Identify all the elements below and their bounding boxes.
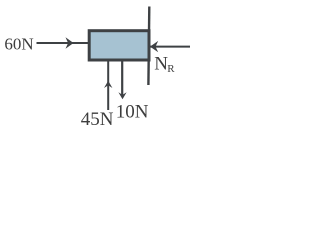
svg-text:R: R xyxy=(167,63,175,75)
svg-text:10N: 10N xyxy=(116,101,149,122)
svg-text:60N: 60N xyxy=(4,35,33,54)
svg-text:N: N xyxy=(154,53,168,74)
svg-text:45N: 45N xyxy=(81,109,114,130)
